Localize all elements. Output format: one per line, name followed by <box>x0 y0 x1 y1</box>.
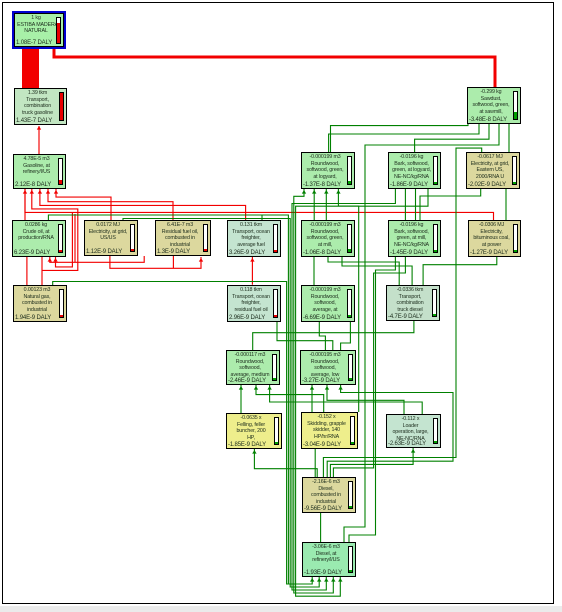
wire C to B arrow <box>38 126 40 154</box>
process box RWMILL: -0.000199 m3 Roundwood, softwood, green, at mill, <box>301 220 355 257</box>
wire RWMILL to TRUCKD 1 <box>328 257 399 285</box>
arrowhead <box>331 578 335 582</box>
wire TRUCKD to RWMED <box>253 321 414 350</box>
indicator bar B <box>59 92 64 121</box>
wire CRUDE to NATGAS 2 <box>41 257 43 285</box>
wire bundle2 ELECUS <box>123 219 319 588</box>
arrowhead <box>53 258 57 262</box>
arrowhead <box>317 578 321 582</box>
wire ELECE to BARKMILL <box>420 189 481 220</box>
arrowhead <box>252 450 256 454</box>
process box C: 4.78E-5 m3 Gasoline, at refinery/l/US <box>13 154 66 189</box>
value label 2.96E-9 DALY <box>229 315 265 321</box>
wire BARKMILL to DIESELC <box>333 257 405 480</box>
indicator bar SAW <box>513 91 518 120</box>
value label 3.26E-9 DALY <box>229 250 265 256</box>
arrowhead <box>338 386 342 390</box>
indicator bar BARKLOG <box>433 156 438 185</box>
wire RWMED to LOAD <box>270 385 423 414</box>
arrowhead <box>338 578 342 582</box>
wire SAW to RWLOG <box>329 124 479 152</box>
wire C to ELECUS <box>56 189 111 220</box>
value label -3.48E-8 DALY <box>469 117 507 123</box>
value label 1.08E-7 DALY <box>16 40 52 46</box>
value label -6.69E-9 DALY <box>303 315 341 321</box>
wire BARKLOG to BARKMILL 1 <box>404 189 406 220</box>
wire C to RESID <box>48 189 173 220</box>
value label -2.46E-9 DALY <box>228 378 266 384</box>
wire OCEANR to RWLOW <box>277 322 333 350</box>
indicator bar OCEANR <box>273 289 278 318</box>
indicator bar RWLOG <box>347 156 352 185</box>
process box NATGAS: 0.00123 m3 Natural gas, combusted in industrial <box>13 285 67 322</box>
wire ELECUS to RESID loop <box>110 256 201 268</box>
wire SAW corner to RWLOG <box>331 121 469 152</box>
value label -1.37E-8 DALY <box>303 182 341 188</box>
arrowhead <box>46 190 50 194</box>
indicator bar BARKMILL <box>433 224 438 253</box>
wire NATGAS bundle link <box>53 282 313 585</box>
wire ELECBIT to TRUCKD <box>423 257 497 285</box>
wire RWMILL to TRUCKD 2 <box>342 257 412 285</box>
wire C to OCEANA <box>40 189 246 220</box>
wire LOAD to DIESELC <box>330 448 413 480</box>
wire DIESELC to DIESELR <box>320 513 322 542</box>
wire SAW to BARKLOG <box>415 124 489 152</box>
wire CRUDE to NATGAS 1 <box>26 257 28 285</box>
indicator bar ELECBIT <box>513 224 518 253</box>
process box ELECBIT: -0.0306 MJ Electricity, bituminous coal, at power <box>468 220 521 257</box>
indicator bar C <box>58 158 63 185</box>
wire RWAVG to RWLOW 2 <box>341 322 351 350</box>
indicator bar FELL <box>274 417 279 445</box>
thick red flow A to B <box>22 49 39 88</box>
arrowhead <box>267 386 271 390</box>
process box RWLOW: -0.000195 m3 Roundwood, softwood, average, low <box>300 350 356 385</box>
process box RWLOG: -0.000199 m3 Roundwood, softwood, green, at logyard, <box>301 152 355 189</box>
wire FELL to DIESELC <box>254 449 317 480</box>
indicator bar NATGAS <box>59 289 64 318</box>
wire OCEANA top entry <box>261 216 263 221</box>
value label 1.3E-9 DALY <box>157 249 190 255</box>
indicator bar RWMED <box>272 354 277 381</box>
process box A: 1 kg ESTIBA MADERA NATURAL <box>12 11 66 49</box>
wire SAW to ELECE <box>508 124 510 152</box>
indicator bar TRUCKD <box>432 289 437 317</box>
value label 6.23E-9 DALY <box>14 250 50 256</box>
process box OCEANA: 0.131 tkm Transport, ocean freighter, average fuel <box>227 220 281 257</box>
value label -9.56E-9 DALY <box>304 506 342 512</box>
wire RWLOW to SKID <box>311 385 313 412</box>
process box OCEANR: 0.118 tkm Transport, ocean freighter, residual fuel oil <box>227 285 281 322</box>
process box RESID: 6.41E-7 m3 Residual fuel oil, combusted in industrial <box>155 220 211 256</box>
value label -1.45E-9 DALY <box>390 250 428 256</box>
value label -2.02E-9 DALY <box>468 182 506 188</box>
value label 1.43E-7 DALY <box>16 118 52 124</box>
arrowhead <box>250 258 254 262</box>
arrowhead <box>312 190 316 194</box>
arrowhead <box>38 190 42 194</box>
indicator bar CRUDE <box>58 224 63 253</box>
wire SAW long to DIESELR <box>344 124 499 542</box>
wire RWAVG to RWLOW 1 <box>319 322 325 350</box>
indicator bar LOAD <box>433 418 438 444</box>
process box TRUCKD: -0.0336 tkm Transport, combination truck diesel <box>386 285 440 321</box>
indicator bar DIESELC <box>348 481 353 509</box>
wire bundle3 BARKLOG <box>292 189 395 590</box>
arrowhead <box>324 190 328 194</box>
process box DIESELR: -3.06E-6 m3 Diesel, at refinery/l/US <box>302 542 356 577</box>
process box ELECE: -0.0617 MJ Electricity, at grid, Eastern US, 2000/RNA U <box>466 152 520 189</box>
indicator bar ELECE <box>512 156 517 185</box>
wire bus loop to CRUDE 1 <box>74 214 76 262</box>
arrowhead <box>239 386 243 390</box>
arrowhead <box>23 190 27 194</box>
process box B: 1.39 tkm Transport, combination truck gasoline <box>14 88 67 125</box>
value label -4.7E-9 DALY <box>388 314 423 320</box>
wire C to ELECBIT long <box>25 189 494 220</box>
wire bus loop to CRUDE 2 <box>56 212 73 267</box>
red flow A to SAW <box>54 49 495 87</box>
wire RWMED to FELL <box>240 385 242 416</box>
process box BARKLOG: -0.0196 kg Bark, softwood, green, at logyard, NE-NC/kg/RNA <box>388 152 441 189</box>
arrowhead <box>199 258 203 262</box>
wire ELECE to ELECBIT <box>505 189 507 220</box>
process box CRUDE: 0.0286 kg Crude oil, at production/RNA <box>12 220 66 257</box>
value label -3.04E-9 DALY <box>303 442 341 448</box>
indicator bar RWLOW <box>348 354 353 381</box>
arrowhead <box>324 578 328 582</box>
value label -1.86E-9 DALY <box>390 182 428 188</box>
indicator bar OCEANA <box>273 224 278 253</box>
process box RWAVG: -0.000199 m3 Roundwood, softwood, average, at <box>301 285 355 322</box>
arrowhead <box>310 386 314 390</box>
arrowhead <box>48 258 52 262</box>
process box ELECUS: 0.0172 MJ Electricity, at grid, US/US <box>84 220 138 256</box>
indicator bar ELECUS <box>130 224 135 252</box>
value label 1.12E-9 DALY <box>86 249 122 255</box>
process box LOAD: -0.112 x Loader operation, large, NE-NC/RNA <box>386 414 441 448</box>
wire RWMED to SKID <box>256 385 324 412</box>
wire RESID to CRUDE loop <box>50 256 144 262</box>
process box BARKMILL: -0.0196 kg Bark, softwood, green, at mill, NE-NC/kg/RNA <box>388 220 441 257</box>
value label -1.27E-9 DALY <box>470 250 508 256</box>
wire ELECE long line to DIESELC <box>323 148 481 480</box>
wire bundle1 CRUDE <box>48 215 312 584</box>
wire RESID bottom stub <box>172 256 174 268</box>
indicator bar RWAVG <box>347 289 352 318</box>
wire bundle5 BARKLOG2 <box>296 189 428 596</box>
process box RWMED: -0.000117 m3 Roundwood, softwood, average, medium <box>226 350 280 385</box>
wire SKID to DIESELC <box>314 449 316 480</box>
value label 1.94E-9 DALY <box>15 315 51 321</box>
value label -2.63E-9 DALY <box>388 441 426 447</box>
wire BARKLOG to BARKMILL 2 <box>415 189 417 220</box>
wire RWLOG to RWMILL b <box>325 189 327 220</box>
indicator bar RESID <box>203 224 208 252</box>
wire bundle4 RWLOG <box>294 189 334 593</box>
wire C to CRUDE <box>24 189 26 220</box>
wire OCEANR to OCEANA <box>251 257 253 285</box>
indicator bar DIESELR <box>348 546 353 573</box>
process box FELL: -0.0635 x Felling, feller buncher, 200 HP, <box>226 413 282 449</box>
wire RWLOG to RWMILL a <box>313 189 315 220</box>
process box SAW: -0.299 kg Sawdust, softwood, green, at sawmill, <box>467 87 521 124</box>
process box SKID: -0.152 x Skidding, grapple skidder, 140 HP/hr/RNA <box>301 412 358 449</box>
wire RWLOG right path <box>338 189 358 412</box>
indicator bar A <box>56 17 61 44</box>
value label -3.27E-9 DALY <box>302 378 340 384</box>
wire RWLOW right jog <box>327 385 453 480</box>
value label -1.06E-8 DALY <box>303 250 341 256</box>
process box DIESELC: -2.16E-6 m3 Diesel, combusted in industrial <box>302 477 356 513</box>
arrowhead <box>325 386 329 390</box>
arrowhead <box>254 386 258 390</box>
arrowhead <box>37 126 41 130</box>
wire C bus right <box>32 189 78 270</box>
value label -1.85E-9 DALY <box>228 442 266 448</box>
arrowhead <box>310 578 314 582</box>
arrowhead <box>302 190 306 194</box>
arrowhead <box>411 449 415 453</box>
arrowhead <box>54 190 58 194</box>
bottom gray strip <box>0 606 562 612</box>
indicator bar RWMILL <box>347 224 352 253</box>
wire RWMILL to RWAVG <box>313 257 315 285</box>
value label 2.12E-8 DALY <box>15 182 51 188</box>
indicator bar SKID <box>350 416 355 445</box>
arrowhead <box>336 190 340 194</box>
arrowhead <box>30 190 34 194</box>
wire RWLOW to LOAD <box>327 385 404 414</box>
value label -1.93E-9 DALY <box>304 570 342 576</box>
wire BARKMILL to DIESELR <box>349 257 395 542</box>
